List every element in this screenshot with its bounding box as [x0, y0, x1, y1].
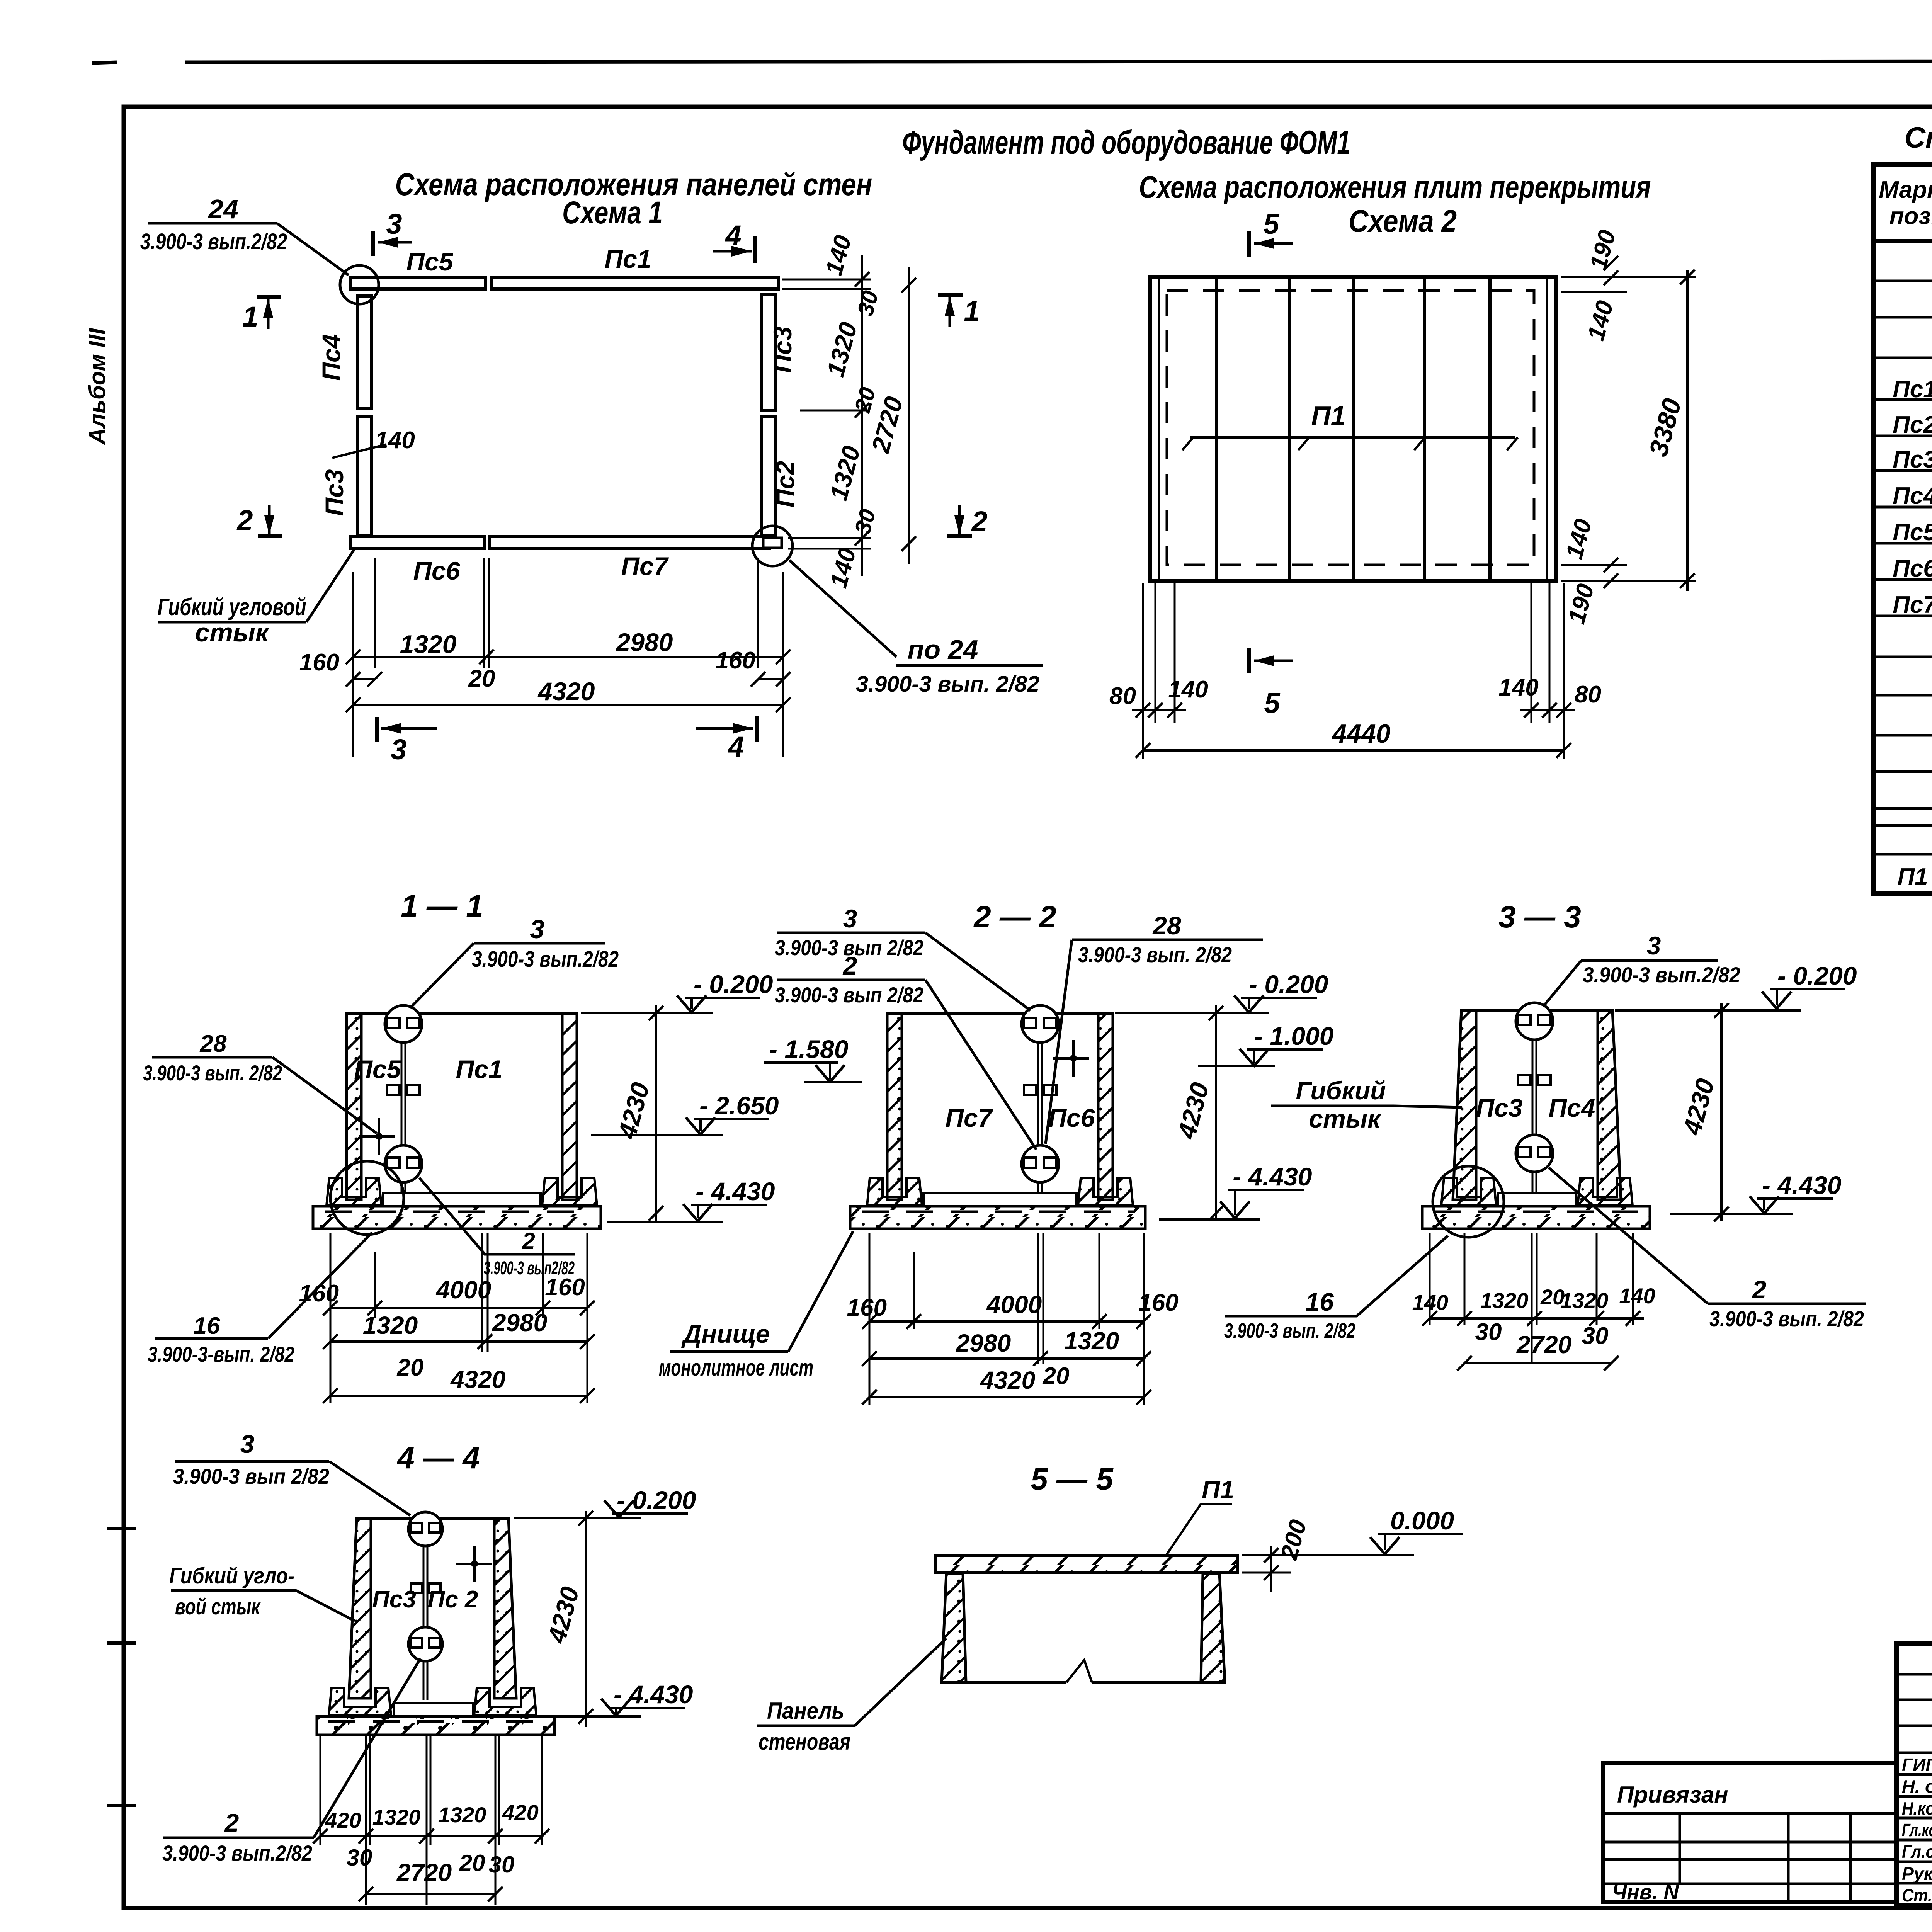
- svg-text:1 — 1: 1 — 1: [401, 889, 483, 923]
- svg-text:Пс6: Пс6: [1893, 555, 1932, 582]
- svg-text:2: 2: [842, 951, 857, 980]
- monolithic bottom rect: [383, 1193, 541, 1206]
- svg-text:- 0.200: - 0.200: [617, 1486, 696, 1514]
- node circle 1-1 bottom: [330, 1161, 404, 1235]
- svg-text:140: 140: [1498, 674, 1538, 701]
- svg-text:Гибкий угло-: Гибкий угло-: [169, 1563, 294, 1588]
- scheme 1 overall right dim 2720: [908, 267, 910, 564]
- 5-5 right wall: [1201, 1573, 1225, 1682]
- spec table grid: [1873, 164, 1932, 893]
- svg-text:4320: 4320: [450, 1366, 505, 1393]
- svg-text:Марка: Марка: [1879, 177, 1932, 203]
- 4-4 footing channels: [329, 1688, 391, 1716]
- svg-text:Гл.конст.: Гл.конст.: [1902, 1820, 1932, 1840]
- joint circles: [1022, 1005, 1059, 1043]
- svg-text:160: 160: [847, 1294, 887, 1321]
- svg-text:24: 24: [207, 194, 238, 224]
- base slab: [850, 1206, 1145, 1229]
- section marker 1 right: [938, 293, 963, 297]
- svg-text:28: 28: [200, 1031, 227, 1057]
- svg-text:Пс1: Пс1: [456, 1055, 503, 1083]
- 4-4 joint: [423, 1518, 425, 1700]
- joint line 3-3: [1532, 1010, 1534, 1201]
- svg-text:1320: 1320: [1480, 1288, 1529, 1313]
- footing channel blocks: [867, 1178, 922, 1206]
- svg-text:3: 3: [240, 1430, 255, 1458]
- svg-text:ГИП: ГИП: [1902, 1755, 1932, 1775]
- svg-text:2720: 2720: [396, 1859, 452, 1886]
- svg-text:0.000: 0.000: [1390, 1506, 1454, 1535]
- svg-text:Гибкий: Гибкий: [1296, 1076, 1386, 1105]
- svg-text:Днище: Днище: [681, 1320, 770, 1348]
- svg-text:4000: 4000: [986, 1291, 1042, 1318]
- svg-text:Чнв. N: Чнв. N: [1612, 1881, 1679, 1904]
- section marker 3 bottom: [375, 717, 379, 742]
- panel Пс3 (right wall top segment): [762, 294, 776, 410]
- svg-text:Схема 2: Схема 2: [1349, 204, 1457, 239]
- 4-4 base slab: [317, 1716, 554, 1735]
- svg-text:Альбом III: Альбом III: [84, 328, 110, 445]
- svg-text:Пс7: Пс7: [1893, 592, 1932, 618]
- svg-text:- 2.650: - 2.650: [699, 1091, 779, 1120]
- svg-text:Пс 2: Пс 2: [428, 1586, 478, 1613]
- svg-text:3.900-3 вып. 2/82: 3.900-3 вып. 2/82: [1078, 942, 1232, 967]
- svg-text:Пс7: Пс7: [621, 552, 669, 580]
- svg-text:Пс6: Пс6: [413, 556, 461, 585]
- svg-text:2: 2: [522, 1228, 535, 1254]
- svg-text:Пс5: Пс5: [1893, 519, 1932, 546]
- svg-text:Пс2: Пс2: [1893, 412, 1932, 438]
- corner joint circle top-left: [340, 265, 379, 304]
- svg-text:по 24: по 24: [908, 634, 978, 665]
- svg-text:1320: 1320: [372, 1805, 421, 1829]
- right top extension lines + labels 190/140: [1561, 276, 1696, 278]
- section marker 3 top: [371, 231, 375, 256]
- svg-text:П1: П1: [1311, 401, 1345, 431]
- svg-text:3 — 3: 3 — 3: [1498, 900, 1581, 934]
- svg-text:2: 2: [224, 1808, 239, 1837]
- vertical dim 4230 (3-3): [1720, 1003, 1723, 1221]
- 4-4 bottom dims: [320, 1735, 321, 1845]
- base slab 3-3: [1422, 1206, 1650, 1229]
- scheme 1 right dimension chain: [782, 279, 871, 281]
- svg-text:Фундамент под оборудование: Фундамент под оборудование ФОМ1: [902, 124, 1350, 161]
- scheme 2 bottom extension lines: [1142, 583, 1144, 759]
- svg-text:20: 20: [1043, 1363, 1070, 1389]
- 1-1 bottom dims: [330, 1233, 332, 1403]
- 5-5 dim 200: [1242, 1572, 1291, 1574]
- svg-text:- 0.200: - 0.200: [1777, 961, 1857, 990]
- section walls: [887, 1012, 1113, 1015]
- svg-text:Пс1: Пс1: [1893, 376, 1932, 403]
- 4-4 vertical dim 4230: [585, 1511, 587, 1727]
- svg-text:3.900-3 вып 2/82: 3.900-3 вып 2/82: [173, 1464, 329, 1488]
- svg-text:поз.: поз.: [1889, 203, 1932, 230]
- svg-text:3: 3: [391, 733, 406, 765]
- svg-text:Н.контр: Н.контр: [1902, 1798, 1932, 1818]
- joint line: [1037, 1013, 1039, 1201]
- axis cross: [1072, 1040, 1075, 1077]
- svg-text:3: 3: [843, 904, 857, 933]
- svg-text:Спецификация к схемам распол: Спецификация к схемам расположения панел…: [1905, 121, 1932, 154]
- svg-text:Н. отд.: Н. отд.: [1902, 1776, 1932, 1796]
- svg-text:3: 3: [530, 915, 544, 944]
- svg-text:3.900-3-вып. 2/82: 3.900-3-вып. 2/82: [148, 1342, 294, 1366]
- section marker 5 bottom: [1247, 648, 1251, 673]
- leader po 24 bottom-right: [789, 560, 896, 657]
- svg-text:3.900-3 вып. 2/82: 3.900-3 вып. 2/82: [143, 1061, 282, 1085]
- svg-text:80: 80: [1575, 681, 1601, 708]
- svg-text:160: 160: [299, 649, 339, 676]
- fold marks on left frame: [107, 1527, 136, 1530]
- vertical dim 4230 (1-1): [655, 1005, 657, 1221]
- svg-text:П1: П1: [1897, 864, 1928, 890]
- svg-text:20: 20: [397, 1354, 424, 1381]
- inner edge lines: [1158, 277, 1160, 581]
- svg-text:20: 20: [459, 1850, 485, 1876]
- joint circles: [385, 1005, 422, 1043]
- svg-text:1: 1: [242, 301, 258, 333]
- svg-text:Панель: Панель: [767, 1698, 844, 1724]
- svg-text:2980: 2980: [956, 1329, 1011, 1357]
- scheme 1 bottom dimension extension lines: [352, 572, 354, 757]
- footing channel blocks: [327, 1178, 381, 1206]
- svg-text:3.900-3 вып. 2/82: 3.900-3 вып. 2/82: [1224, 1319, 1355, 1342]
- joint line: [401, 1013, 403, 1201]
- 5-5 slab P1: [935, 1555, 1238, 1573]
- svg-text:160: 160: [716, 647, 755, 674]
- footing channels 3-3: [1441, 1178, 1496, 1206]
- svg-text:140: 140: [1619, 1284, 1655, 1308]
- svg-text:Пс6: Пс6: [1048, 1104, 1095, 1132]
- svg-text:Схема 1: Схема 1: [562, 195, 663, 230]
- svg-text:5 — 5: 5 — 5: [1031, 1462, 1114, 1496]
- svg-text:- 4.430: - 4.430: [696, 1177, 775, 1206]
- svg-text:Пс7: Пс7: [946, 1104, 993, 1132]
- panel Пс7 (bottom bar right segment): [489, 537, 769, 549]
- panel Пс6 (bottom bar left segment): [351, 537, 484, 549]
- svg-text:Пс5: Пс5: [354, 1055, 401, 1083]
- axis cross: [378, 1118, 380, 1155]
- right bottom extension lines + labels 140/190: [1561, 564, 1627, 566]
- svg-text:Пс3: Пс3: [320, 469, 349, 516]
- svg-text:16: 16: [1305, 1287, 1334, 1316]
- svg-text:3.900-3 вып. 2/82: 3.900-3 вып. 2/82: [1709, 1306, 1864, 1331]
- svg-text:4 — 4: 4 — 4: [396, 1440, 480, 1475]
- svg-text:4320: 4320: [537, 677, 595, 706]
- panel Пс3 (left wall bottom segment): [358, 417, 372, 535]
- svg-text:Пс1: Пс1: [605, 245, 651, 273]
- panel Пс4 (left wall top segment): [358, 296, 372, 409]
- svg-text:1320: 1320: [1560, 1288, 1609, 1313]
- svg-text:3.900-3 вып.2/82: 3.900-3 вып.2/82: [472, 947, 619, 972]
- svg-text:2: 2: [236, 504, 253, 536]
- svg-text:Пс3: Пс3: [1476, 1094, 1523, 1122]
- svg-text:3.900-3 вып.2/82: 3.900-3 вып.2/82: [140, 229, 287, 254]
- svg-text:- 1.000: - 1.000: [1254, 1022, 1334, 1050]
- 4-4 left wall: [349, 1518, 371, 1698]
- svg-text:П1: П1: [1202, 1475, 1234, 1504]
- svg-text:вой стык: вой стык: [175, 1594, 261, 1619]
- svg-text:- 0.200: - 0.200: [1249, 970, 1328, 998]
- base slab: [313, 1206, 601, 1229]
- svg-text:30: 30: [1475, 1319, 1502, 1345]
- svg-text:3: 3: [386, 208, 402, 240]
- section marker 2 right: [947, 534, 972, 538]
- panel Пс5 (top bar left segment): [351, 277, 486, 289]
- svg-text:Схема расположения плит пер: Схема расположения плит перекрытия: [1139, 170, 1651, 205]
- svg-text:монолитное лист: монолитное лист: [659, 1355, 813, 1381]
- vertical dim 4230 (2-2): [1215, 1005, 1217, 1221]
- 5-5 bottom line with break: [966, 1681, 1066, 1684]
- svg-text:3: 3: [1647, 931, 1661, 960]
- svg-text:3.900-3 вып. 2/82: 3.900-3 вып. 2/82: [856, 672, 1039, 697]
- svg-text:1320: 1320: [1064, 1327, 1119, 1355]
- svg-text:20: 20: [468, 665, 495, 692]
- svg-text:Пс3: Пс3: [1893, 446, 1932, 473]
- svg-text:140: 140: [1412, 1290, 1448, 1315]
- section marker 4 bottom: [696, 727, 753, 730]
- svg-text:- 0.200: - 0.200: [694, 970, 773, 998]
- svg-text:2 — 2: 2 — 2: [973, 900, 1056, 934]
- svg-text:4440: 4440: [1331, 719, 1390, 748]
- section walls: [347, 1012, 577, 1015]
- svg-text:2: 2: [971, 505, 987, 537]
- svg-text:2720: 2720: [1516, 1331, 1571, 1359]
- svg-text:140: 140: [1168, 676, 1208, 703]
- svg-text:160: 160: [1138, 1289, 1178, 1316]
- panel Пс1 (top bar right segment): [491, 277, 779, 289]
- svg-text:2980: 2980: [616, 628, 673, 656]
- svg-text:- 4.430: - 4.430: [1762, 1171, 1842, 1199]
- svg-text:4320: 4320: [980, 1366, 1035, 1394]
- svg-text:80: 80: [1109, 683, 1136, 709]
- svg-text:5: 5: [1264, 687, 1281, 719]
- slab field outer rect: [1150, 277, 1556, 581]
- svg-text:3.900-3 вып.2/82: 3.900-3 вып.2/82: [1583, 963, 1740, 987]
- svg-text:3.900-3 вып 2/82: 3.900-3 вып 2/82: [775, 983, 923, 1007]
- svg-text:30: 30: [489, 1852, 515, 1878]
- 4-4 right wall: [494, 1518, 516, 1698]
- svg-text:Гл.спец.: Гл.спец.: [1902, 1842, 1932, 1862]
- svg-text:30: 30: [1582, 1323, 1609, 1349]
- svg-text:16: 16: [194, 1313, 220, 1339]
- svg-text:Пс5: Пс5: [406, 247, 454, 276]
- svg-text:160: 160: [299, 1280, 339, 1307]
- 5-5 left wall: [942, 1573, 966, 1682]
- svg-text:420: 420: [502, 1800, 538, 1825]
- svg-text:5: 5: [1263, 208, 1280, 240]
- svg-text:3.900-3 вып.2/82: 3.900-3 вып.2/82: [162, 1841, 312, 1865]
- corner joint circle bottom-right: [752, 526, 793, 566]
- svg-text:Привязан: Привязан: [1617, 1782, 1728, 1808]
- 4-4 axis cross: [473, 1546, 476, 1582]
- svg-text:Рук. гр.: Рук. гр.: [1902, 1864, 1932, 1884]
- svg-text:стеновая: стеновая: [759, 1729, 850, 1755]
- svg-text:Гибкий угловой: Гибкий угловой: [158, 594, 306, 621]
- svg-text:стык: стык: [1309, 1104, 1382, 1133]
- svg-text:- 1.580: - 1.580: [769, 1035, 849, 1063]
- svg-text:4: 4: [727, 731, 744, 763]
- dashed wall outline under slabs: [1167, 291, 1534, 565]
- svg-text:30: 30: [347, 1845, 372, 1871]
- svg-text:Пс3: Пс3: [768, 327, 797, 373]
- svg-text:1320: 1320: [363, 1311, 418, 1339]
- svg-text:Пс4: Пс4: [1893, 483, 1932, 509]
- svg-text:Пс4: Пс4: [1549, 1094, 1595, 1122]
- svg-text:Пс2: Пс2: [771, 461, 799, 507]
- joint circles 3-3: [1516, 1003, 1553, 1040]
- svg-text:Ст.инж.: Ст.инж.: [1902, 1885, 1932, 1905]
- svg-text:140: 140: [375, 427, 415, 454]
- plate joint lines: [1215, 277, 1218, 581]
- svg-text:1: 1: [964, 295, 980, 327]
- panel Пс2 (right wall bottom segment): [762, 417, 776, 535]
- monolithic bottom 3-3: [1498, 1193, 1576, 1206]
- svg-text:Пс3: Пс3: [372, 1586, 416, 1613]
- 2-2 bottom dims: [869, 1233, 871, 1405]
- svg-text:- 4.430: - 4.430: [1233, 1162, 1312, 1191]
- svg-text:4000: 4000: [435, 1276, 491, 1304]
- svg-text:1320: 1320: [438, 1803, 486, 1827]
- svg-text:1320: 1320: [400, 630, 457, 658]
- sheet top edge line: [92, 62, 117, 63]
- 3-3 bottom dims: [1429, 1233, 1431, 1325]
- svg-text:Пс4: Пс4: [317, 334, 345, 381]
- svg-text:160: 160: [545, 1274, 585, 1301]
- svg-text:2980: 2980: [492, 1309, 547, 1337]
- svg-text:2: 2: [1752, 1275, 1767, 1304]
- node circle 3-3: [1433, 1166, 1504, 1237]
- svg-text:28: 28: [1152, 911, 1181, 940]
- vertical dim 3380: [1686, 270, 1689, 591]
- monolithic bottom rect: [923, 1193, 1077, 1206]
- section 3-3 walls: [1461, 1009, 1612, 1012]
